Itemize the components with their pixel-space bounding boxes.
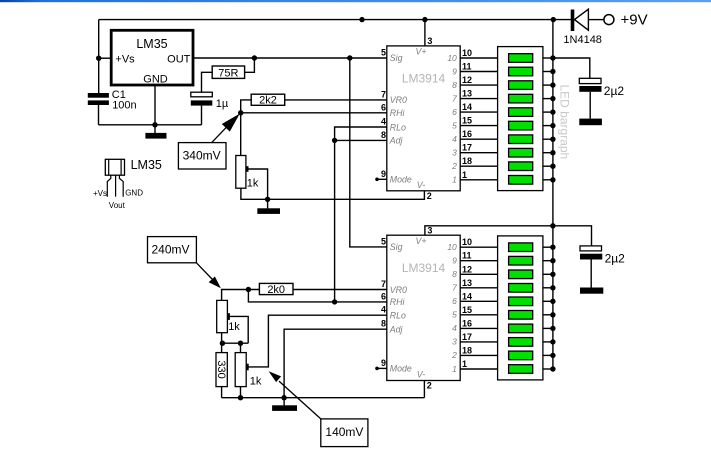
capacitor C3 2µ2: [579, 78, 624, 98]
LED bargraph 2 box: [498, 236, 543, 380]
wire LED 2-1 cathode: [543, 246, 553, 248]
node LED rail 2-2: [550, 258, 555, 263]
LED 2-7: [509, 324, 533, 333]
resistor R330 330: [215, 353, 227, 387]
wire LM35 GND pin: [154, 85, 156, 125]
svg-text:75R: 75R: [218, 67, 238, 79]
wire diode to +9V terminal: [588, 19, 604, 21]
node LED rail 2-7: [550, 326, 555, 331]
pin 2 label chip2: [417, 369, 432, 390]
svg-text:1µ: 1µ: [216, 98, 229, 110]
svg-text:18: 18: [462, 345, 472, 355]
svg-text:Mode: Mode: [390, 364, 412, 374]
resistor 2k2: [251, 94, 285, 107]
wire C3 bottom lead: [589, 92, 591, 119]
pin 9 Mode chip1: [381, 169, 412, 185]
svg-text:2: 2: [451, 350, 457, 360]
wire chip1 pin 15 to LED: [460, 125, 497, 127]
label 240mV: [148, 237, 197, 263]
wire chip1 pin 12 to LED: [460, 84, 497, 86]
wire chip2 pin 18 to LED: [460, 354, 497, 356]
svg-text:4: 4: [381, 117, 386, 127]
LED 1-1: [509, 54, 533, 63]
pin 8 Adj chip2: [381, 319, 404, 335]
svg-text:13: 13: [462, 89, 472, 99]
svg-text:+Vs: +Vs: [93, 189, 107, 198]
node P1 wiper/gnd junction: [265, 197, 270, 202]
LED 1-9: [509, 162, 533, 171]
svg-text:6: 6: [381, 291, 386, 301]
svg-text:16: 16: [462, 318, 472, 328]
wire chip2 pin 17 to LED: [460, 341, 497, 343]
wire chip2 pin 1 to LED: [460, 368, 497, 370]
wire C1 to ground wire: [98, 105, 100, 125]
node LED rail 2-4: [550, 285, 555, 290]
LED 2-1: [509, 243, 533, 252]
node bottom junction P3: [238, 395, 243, 400]
wire LED 2-7 cathode: [543, 327, 553, 329]
resistor 75R: [212, 66, 244, 79]
IC U2 LM3914 body: [387, 235, 460, 380]
LED 2-8: [509, 338, 533, 347]
svg-text:4: 4: [381, 305, 386, 315]
pin 10 labels chip2: [447, 237, 472, 252]
wire LED cathode rail: [552, 20, 554, 369]
wire chip2 pin 13 to LED: [460, 287, 497, 289]
svg-text:RLo: RLo: [390, 122, 406, 132]
svg-text:RHi: RHi: [390, 297, 406, 307]
wire P1 wiper lead: [248, 169, 267, 199]
svg-text:5: 5: [381, 48, 386, 58]
wire LED 1-9 cathode: [543, 165, 553, 167]
pin 12 labels chip2: [452, 264, 472, 279]
svg-text:8: 8: [381, 319, 386, 329]
wire LED 1-10 cathode: [543, 179, 553, 181]
pin 7 VR0 chip1: [381, 89, 407, 105]
wire LED 2-8 cathode: [543, 341, 553, 343]
svg-text:OUT: OUT: [167, 54, 191, 66]
node LED rail 2-9: [550, 353, 555, 358]
LED 2-9: [509, 351, 533, 360]
pin 17 labels chip2: [452, 332, 472, 347]
wire 2k0 node to RHi chip2: [248, 290, 386, 302]
svg-text:6: 6: [452, 107, 457, 117]
wire pot P1 top lead: [240, 113, 242, 156]
wire R330 top lead: [221, 343, 223, 352]
wire LED 1-8 cathode: [543, 152, 553, 154]
svg-text:16: 16: [462, 129, 472, 139]
LED 1-2: [509, 67, 533, 76]
svg-text:11: 11: [462, 62, 472, 72]
wire LED 2-5 cathode: [543, 300, 553, 302]
svg-text:3: 3: [452, 148, 457, 158]
wire chip1 pin 17 to LED: [460, 152, 497, 154]
svg-text:140mV: 140mV: [325, 425, 363, 439]
wire LED 2-9 cathode: [543, 354, 553, 356]
arrow 140mV: [269, 371, 321, 419]
svg-text:9: 9: [452, 66, 457, 76]
pin 15 labels chip2: [452, 305, 472, 320]
LED 1-10: [509, 176, 533, 185]
svg-text:5: 5: [381, 236, 386, 246]
wire P2 bottom lead: [221, 333, 223, 344]
wire chip2 pin 16 to LED: [460, 327, 497, 329]
svg-text:8: 8: [452, 269, 457, 279]
wire R330 bottom lead: [221, 387, 223, 398]
svg-text:Adj: Adj: [389, 136, 404, 146]
node mid junction right: [238, 341, 243, 346]
node LED rail 1-8: [550, 150, 555, 155]
wire +9V top rail: [99, 19, 571, 21]
node mid junction left: [220, 341, 225, 346]
svg-text:1k: 1k: [250, 375, 262, 387]
potentiometer P2 1k: [217, 300, 241, 333]
svg-text:LM35: LM35: [136, 37, 167, 51]
LED 1-6: [509, 121, 533, 130]
wire LED 1-1 cathode: [543, 57, 553, 59]
svg-text:2k0: 2k0: [267, 284, 285, 296]
node top rail junction LED rail: [551, 17, 556, 22]
wire 2k2 left lead: [241, 100, 252, 113]
svg-text:5: 5: [452, 120, 457, 130]
pin 8 Adj chip1: [381, 130, 404, 146]
svg-text:5: 5: [452, 310, 457, 320]
node LED rail 2-10: [550, 366, 555, 371]
svg-text:V-: V-: [417, 369, 426, 379]
svg-text:2: 2: [427, 380, 432, 390]
pin 9 Mode chip2: [381, 358, 412, 374]
diode D1 1N4148: [563, 9, 602, 46]
svg-text:1k: 1k: [247, 177, 259, 189]
svg-text:14: 14: [462, 291, 472, 301]
pin 16 labels chip1: [452, 129, 472, 144]
svg-text:7: 7: [381, 279, 386, 289]
svg-text:15: 15: [462, 116, 472, 126]
wire LED 2-6 cathode: [543, 314, 553, 316]
svg-text:LM35: LM35: [131, 158, 162, 172]
svg-text:V+: V+: [415, 47, 426, 57]
wire rail to +Vs: [98, 20, 100, 93]
svg-text:3: 3: [452, 337, 457, 347]
svg-text:340mV: 340mV: [183, 149, 221, 163]
capacitor C4 2µ2: [580, 246, 625, 266]
node Sig drop junction: [347, 55, 352, 60]
svg-text:VR0: VR0: [390, 285, 407, 295]
IC LM35 (block): [111, 30, 193, 85]
svg-text:4: 4: [452, 134, 457, 144]
wire V- chip2: [423, 381, 425, 398]
ground (bottom): [272, 405, 297, 411]
ground (LM35): [145, 133, 166, 139]
pin 5 Sig chip2: [381, 236, 403, 252]
wire RLo chip1 chain: [335, 127, 387, 302]
pin 4 RLo chip2: [381, 305, 406, 321]
node 340mV junction: [238, 110, 243, 115]
wire bottom return: [222, 397, 425, 399]
svg-text:3: 3: [427, 36, 432, 46]
wire V+ chip2: [425, 226, 592, 246]
svg-text:10: 10: [447, 242, 457, 252]
svg-text:2µ2: 2µ2: [604, 84, 625, 98]
svg-text:9: 9: [381, 358, 386, 368]
svg-text:V+: V+: [415, 236, 426, 246]
arrow 240mV: [196, 263, 221, 289]
wire V+ stub chip1: [424, 20, 426, 46]
svg-text:Adj: Adj: [389, 325, 404, 335]
node V+ chip2 rail junction: [550, 223, 555, 228]
svg-text:13: 13: [462, 278, 472, 288]
wire P3 bottom lead: [240, 387, 242, 398]
wire gnd stub: [154, 125, 156, 133]
node LED rail 2-6: [550, 312, 555, 317]
wire chip2 pin 11 to LED: [460, 260, 497, 262]
node LED rail 1-1: [550, 55, 555, 60]
svg-text:RHi: RHi: [390, 108, 406, 118]
wire rail to C3: [553, 58, 590, 78]
svg-text:+9V: +9V: [621, 11, 648, 28]
ground (C4): [580, 288, 603, 294]
node bottom junction gnd: [281, 395, 286, 400]
LED 1-8: [509, 148, 533, 157]
wire LED 1-7 cathode: [543, 138, 553, 140]
pin 6 RHi chip2: [381, 291, 406, 307]
capacitor 1µ: [191, 92, 229, 110]
wire LED 1-3 cathode: [543, 84, 553, 86]
svg-text:1: 1: [452, 364, 457, 374]
wire chip1 pin 14 to LED: [460, 111, 497, 113]
resistor 2k0: [259, 283, 293, 296]
wire V- return chip1: [241, 188, 425, 199]
node LED rail 2-5: [550, 299, 555, 304]
wire Sig chip2 feed: [350, 58, 387, 247]
pin 11 labels chip1: [452, 62, 471, 77]
svg-text:7: 7: [381, 89, 386, 99]
node LED rail 1-6: [550, 123, 555, 128]
pin 3 label chip1: [415, 36, 432, 56]
svg-text:9: 9: [381, 169, 386, 179]
label 340mV: [178, 143, 226, 169]
node LED rail 1-2: [550, 69, 555, 74]
svg-text:330: 330: [215, 360, 227, 378]
svg-text:LM3914: LM3914: [402, 261, 446, 275]
arrow 340mV: [212, 114, 240, 143]
svg-text:V-: V-: [417, 180, 426, 190]
wire chip2 pin 15 to LED: [460, 314, 497, 316]
node top rail junction V+ chip1: [422, 17, 427, 22]
wire 240mV node: [221, 289, 260, 291]
svg-text:2k2: 2k2: [259, 95, 277, 107]
LED 2-3: [509, 270, 533, 279]
pin 1 labels chip2: [452, 359, 467, 374]
wire LED 1-6 cathode: [543, 125, 553, 127]
potentiometer P1 1k: [236, 156, 259, 190]
LED 2-6: [509, 311, 533, 320]
svg-text:LM3914: LM3914: [402, 72, 446, 86]
wire chip2 pin 14 to LED: [460, 300, 497, 302]
svg-text:VR0: VR0: [390, 95, 407, 105]
svg-text:2: 2: [427, 191, 432, 201]
svg-text:RLo: RLo: [390, 311, 406, 321]
pin 12 labels chip1: [452, 75, 472, 90]
svg-text:10: 10: [462, 48, 472, 58]
node OUT/75R junction: [252, 55, 257, 60]
svg-text:2: 2: [451, 161, 457, 171]
node GND junction: [152, 122, 157, 127]
svg-text:GND: GND: [125, 189, 143, 198]
wire Mode stub chip2: [375, 367, 387, 371]
LED 1-7: [509, 135, 533, 144]
svg-text:8: 8: [452, 80, 457, 90]
LED 1-5: [509, 108, 533, 117]
wire Mode stub chip1: [375, 178, 387, 182]
wire chip1 pin 10 to LED: [460, 57, 497, 59]
svg-text:4: 4: [452, 323, 457, 333]
svg-text:Sig: Sig: [390, 242, 403, 252]
pin 13 labels chip2: [452, 278, 472, 293]
pin 18 labels chip1: [451, 156, 472, 171]
wire P3 wiper to RLo chip2: [249, 315, 387, 367]
wire +Vs into LM35: [99, 57, 112, 59]
LM35 package symbol: [93, 158, 162, 210]
node Adj chip1 junction: [332, 138, 337, 143]
node LED rail 1-7: [550, 137, 555, 142]
wire chip1 pin 11 to LED: [460, 71, 497, 73]
wire gnd stub 2: [267, 199, 269, 208]
pin 13 labels chip1: [452, 89, 472, 104]
node LED rail 2-3: [550, 272, 555, 277]
wire 75R left lead: [202, 72, 213, 92]
svg-text:2µ2: 2µ2: [605, 252, 626, 266]
svg-text:1: 1: [462, 170, 467, 180]
node 2k0 junction: [246, 287, 251, 292]
pin 3 label chip2: [415, 226, 432, 246]
wire chip1 pin 16 to LED: [460, 138, 497, 140]
wire OUT to Sig: [193, 57, 387, 59]
wire LED 1-4 cathode: [543, 98, 553, 100]
pin 15 labels chip1: [452, 116, 472, 131]
wire chip1 pin 1 to LED: [460, 179, 497, 181]
svg-text:100n: 100n: [112, 99, 136, 111]
IC U1 LM3914 body: [387, 46, 460, 191]
ground (C3): [579, 119, 602, 126]
node RHi/RLo-chain junction: [332, 299, 337, 304]
node LED rail 1-3: [550, 82, 555, 87]
wire 2k0 to VR0 chip2: [293, 289, 387, 291]
wire chip2 pin 10 to LED: [460, 246, 497, 248]
wire 75R right lead: [245, 58, 255, 72]
svg-text:10: 10: [447, 53, 457, 63]
node LED rail 2-1: [550, 245, 555, 250]
svg-text:9: 9: [452, 256, 457, 266]
svg-text:3: 3: [427, 226, 432, 236]
svg-text:Sig: Sig: [390, 53, 403, 63]
wire chip1 pin 13 to LED: [460, 98, 497, 100]
pin 1 labels chip1: [452, 170, 467, 185]
wire chip2 pin 12 to LED: [460, 273, 497, 275]
svg-text:240mV: 240mV: [152, 243, 190, 257]
svg-text:15: 15: [462, 305, 472, 315]
svg-text:11: 11: [462, 251, 472, 261]
LED 2-4: [509, 284, 533, 293]
LED 1-4: [509, 94, 533, 103]
svg-text:6: 6: [452, 296, 457, 306]
wire 2k2 to VR0 chip1: [285, 99, 387, 101]
wire LED 1-5 cathode: [543, 111, 553, 113]
pin 10 labels chip1: [447, 48, 472, 63]
pin 5 Sig chip1: [381, 48, 403, 64]
svg-text:Vout: Vout: [109, 201, 126, 210]
svg-text:12: 12: [462, 75, 472, 85]
LED bargraph 1 box: [498, 47, 543, 191]
pin 17 labels chip1: [452, 143, 472, 158]
LED 2-2: [509, 256, 533, 265]
LED 2-10: [509, 365, 533, 374]
pin 6 RHi chip1: [381, 102, 406, 118]
wire C4 bottom lead: [590, 260, 592, 288]
svg-text:Mode: Mode: [390, 175, 412, 185]
node LED rail 1-4: [550, 96, 555, 101]
wire 1µ bottom lead: [201, 106, 203, 125]
node LED rail 1-10: [550, 177, 555, 182]
svg-text:+Vs: +Vs: [115, 54, 135, 66]
pin 7 VR0 chip2: [381, 279, 407, 295]
svg-text:14: 14: [462, 102, 472, 112]
top banner: [0, 0, 711, 2]
node top rail junction A: [359, 17, 364, 22]
wire P2 wiper lead: [230, 316, 249, 343]
wire P3 top lead: [240, 343, 242, 352]
svg-text:18: 18: [462, 156, 472, 166]
svg-text:1k: 1k: [228, 321, 240, 333]
wire LED 1-2 cathode: [543, 71, 553, 73]
terminal +9V: [604, 11, 648, 28]
svg-text:8: 8: [381, 130, 386, 140]
svg-text:GND: GND: [143, 73, 168, 85]
wire chip1 pin 18 to LED: [460, 165, 497, 167]
svg-text:1N4148: 1N4148: [563, 34, 602, 46]
wire LED 2-10 cathode: [543, 368, 553, 370]
svg-text:LED bargraph: LED bargraph: [558, 85, 572, 160]
ground (P1): [257, 208, 280, 214]
svg-text:17: 17: [462, 332, 472, 342]
node LED rail 1-5: [550, 109, 555, 114]
svg-text:12: 12: [462, 264, 472, 274]
pin 14 labels chip1: [452, 102, 472, 117]
label 140mV: [321, 419, 368, 447]
svg-text:7: 7: [452, 283, 457, 293]
svg-text:7: 7: [452, 93, 457, 103]
potentiometer P3 1k: [235, 353, 262, 388]
pin 18 labels chip2: [451, 345, 472, 360]
svg-text:1: 1: [452, 175, 457, 185]
pin 16 labels chip2: [452, 318, 472, 333]
LED 1-3: [509, 81, 533, 90]
wire divider mid node: [222, 342, 249, 344]
capacitor C1 100n: [88, 89, 137, 111]
wire LED 2-3 cathode: [543, 273, 553, 275]
pin 14 labels chip2: [452, 291, 472, 306]
svg-text:17: 17: [462, 143, 472, 153]
wire RHi chip1: [241, 112, 387, 114]
pin 4 RLo chip1: [381, 117, 406, 133]
svg-text:6: 6: [381, 102, 386, 112]
wire Adj chip2 to ground: [284, 329, 387, 405]
node +Vs junction: [96, 56, 101, 61]
wire Adj chip1 lead: [335, 139, 387, 141]
svg-text:1: 1: [462, 359, 467, 369]
wire pot P2 top lead: [221, 290, 223, 301]
pin 2 label chip1: [417, 180, 432, 201]
